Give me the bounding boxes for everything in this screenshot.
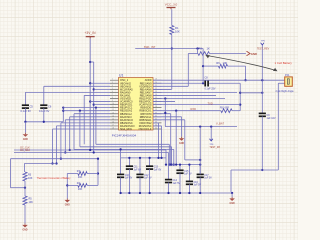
svg-text:1uF 6V: 1uF 6V bbox=[125, 178, 133, 180]
svg-text:C12: C12 bbox=[144, 175, 149, 177]
wire pin r13 to ground bbox=[153, 116, 182, 118]
svg-text:GND: GND bbox=[179, 143, 184, 145]
capacitor C14 bbox=[165, 180, 172, 183]
pin number 15 left / pin name row 14 bbox=[112, 118, 157, 122]
wire pin r11 RXD row bbox=[153, 110, 221, 112]
wire pin r14 bbox=[153, 119, 185, 121]
resistor R7 10K horizontal bbox=[78, 172, 87, 176]
wire C14 bottom stem bbox=[168, 183, 170, 194]
svg-text:1uF 6V: 1uF 6V bbox=[144, 178, 152, 180]
junction VSS row 10 bbox=[62, 107, 64, 109]
wire C12 bottom stem bbox=[139, 177, 141, 193]
pin number 10 left / pin name row 9 bbox=[112, 103, 157, 107]
svg-text:GND: GND bbox=[65, 205, 70, 207]
wire x=98 down bbox=[97, 159, 99, 186]
capacitor C16 bbox=[186, 181, 193, 184]
junction C13 rail1 top bbox=[148, 157, 150, 159]
wire C5 top stem bbox=[24, 92, 26, 105]
wire feed x=176.2 bbox=[175, 111, 177, 165]
connector PJ1 battery jack bbox=[285, 77, 293, 86]
junction C6 on rail bbox=[43, 121, 45, 123]
svg-text:16: 16 bbox=[112, 121, 114, 123]
wire pin 8 left bbox=[90, 101, 110, 103]
junction C10 rail bottom bbox=[119, 192, 121, 194]
junction divider tap bbox=[24, 187, 26, 189]
junction C17 rail bottom bbox=[199, 192, 201, 194]
wire pin r5 long bbox=[153, 91, 237, 93]
wire group1 top rail y=157.9 bbox=[121, 157, 166, 159]
wire pin 6 left bbox=[84, 94, 110, 96]
junction x165 row12 bbox=[164, 112, 166, 114]
wire up at x=188.3 bbox=[187, 54, 189, 87]
junction x165 top bbox=[164, 97, 166, 99]
wire rail down to ground bbox=[24, 122, 26, 133]
wire jog to x=93.7 bbox=[90, 61, 94, 63]
wire down x=158.5 bbox=[158, 123, 160, 158]
junction C12 rail bottom bbox=[139, 192, 141, 194]
wire pin 15 left bbox=[61, 122, 110, 124]
junction x98 top bbox=[97, 158, 99, 160]
pin number 13 left / pin name row 12 bbox=[112, 112, 157, 116]
junction rail2 x=171.6 bbox=[170, 163, 172, 165]
wire FB1 to corner bbox=[232, 110, 240, 112]
wire down at x=95.9 bbox=[95, 108, 97, 145]
wire up to TP3 bbox=[261, 45, 263, 80]
svg-text:1uF 6V: 1uF 6V bbox=[154, 170, 162, 172]
resistor R6 10K horizontal bbox=[219, 64, 228, 68]
svg-text:C16: C16 bbox=[194, 182, 199, 184]
wire pin y107.65 left bbox=[63, 107, 110, 109]
junction x93 pin9 bbox=[93, 103, 95, 105]
junction C11 rail bottom bbox=[128, 192, 130, 194]
resistor R1 10K vertical bbox=[170, 26, 174, 35]
wire C13 top stem bbox=[149, 158, 151, 166]
wire C5 bottom stem bbox=[24, 108, 26, 122]
pin number 12 left / pin name row 11 bbox=[112, 109, 157, 113]
wire loop bottom bbox=[11, 187, 26, 189]
wire C16 bottom stem bbox=[188, 184, 190, 193]
junction test point net bbox=[261, 79, 263, 81]
wire divider top bbox=[23, 164, 25, 173]
svg-text:SDA_MCU: SDA_MCU bbox=[120, 128, 132, 131]
capacitor C9 bbox=[259, 113, 266, 116]
svg-text:TEST_RX: TEST_RX bbox=[209, 146, 220, 149]
svg-text:2: 2 bbox=[112, 79, 113, 81]
wire C15 top stem bbox=[179, 165, 181, 171]
wire R1 down to pin row 89.35 bbox=[171, 35, 173, 90]
junction rail2 end feed bbox=[199, 163, 201, 165]
wire to main ground bbox=[231, 193, 233, 197]
wire pin r15 bbox=[153, 122, 159, 124]
svg-text:1uF 5V: 1uF 5V bbox=[204, 178, 212, 180]
wire vertical x=93.7 bbox=[93, 62, 95, 153]
svg-text:OSCO/CLK: OSCO/CLK bbox=[139, 128, 152, 131]
junction y150 bbox=[69, 149, 71, 151]
wire R2 to port bbox=[210, 53, 246, 55]
wire bottom right horizontal y=170 bbox=[231, 169, 278, 171]
svg-text:GND: GND bbox=[22, 230, 27, 232]
wire C17 bottom stem bbox=[199, 177, 201, 193]
wire net I2C_CLK y=150 bbox=[14, 149, 166, 151]
wire R3 to R5 bbox=[24, 181, 26, 196]
junction TXD row bbox=[239, 103, 241, 105]
svg-text:VCC_3.0: VCC_3.0 bbox=[165, 3, 178, 7]
ground divider bbox=[22, 224, 28, 232]
junction C5 on rail bbox=[24, 121, 26, 123]
junction rail1 x158 bbox=[157, 157, 159, 159]
capacitor C10 bbox=[117, 174, 124, 177]
wire pin r12 bbox=[153, 113, 171, 115]
power bar +3V_IN bbox=[86, 37, 95, 39]
wire down x=60.9 bbox=[60, 123, 62, 159]
wire feed x=166 bbox=[165, 150, 167, 165]
junction node MCLR bbox=[171, 47, 173, 49]
wire pin 9 left bbox=[94, 104, 110, 106]
wire pin y110.7 left bbox=[63, 110, 110, 112]
capacitor C11 bbox=[126, 166, 133, 169]
svg-text:5: 5 bbox=[112, 88, 113, 90]
svg-text:10: 10 bbox=[112, 103, 114, 105]
wire feed x=168.5 group2 corner bbox=[168, 153, 170, 165]
wire down x=184.8 bbox=[184, 120, 186, 160]
pin number 8 left / pin name row 7 bbox=[112, 97, 157, 101]
junction x90 pin2 bbox=[89, 82, 91, 84]
capacitor C13 bbox=[146, 166, 153, 169]
wire C6 bottom stem bbox=[43, 108, 45, 122]
wire C11 bottom stem bbox=[128, 169, 130, 193]
junction C15 rail2 top bbox=[179, 163, 181, 165]
wire down to rail x=231 bbox=[230, 170, 232, 192]
wire battery+ y=80.2 bbox=[153, 79, 285, 81]
wire C12 top stem bbox=[139, 158, 141, 175]
pin number 2 left / pin name row 1 bbox=[112, 79, 157, 83]
wire down to ground U1 bbox=[181, 117, 183, 137]
capacitor C5 bbox=[22, 105, 29, 108]
U1 pin stubs left and right bbox=[110, 80, 162, 129]
junction R2 tap bbox=[196, 47, 198, 49]
port RST red arrow bbox=[247, 51, 258, 56]
ground R4 branch bbox=[65, 199, 71, 207]
svg-text:0.1uF 6V: 0.1uF 6V bbox=[39, 109, 50, 113]
wire r3 to R2 bbox=[188, 53, 198, 55]
wire down at x=79.9 bbox=[79, 111, 81, 147]
svg-text:8: 8 bbox=[112, 97, 113, 99]
junction bend x=79.9 y=110.7 bbox=[79, 110, 81, 112]
annotation arrow 1 Cell Battery bbox=[205, 55, 277, 71]
wire right to battery net bbox=[240, 92, 262, 94]
wire pin 17 left bbox=[53, 128, 111, 130]
pin number 4 left / pin name row 3 bbox=[112, 85, 157, 89]
svg-text:1uF 5V: 1uF 5V bbox=[173, 183, 181, 185]
junction divider line x52 bbox=[51, 162, 53, 164]
wire pin y113.7 left bbox=[74, 113, 110, 115]
wire C10 top stem bbox=[120, 158, 122, 175]
wire battery- stub bbox=[278, 82, 284, 84]
junction bottom right bbox=[261, 169, 263, 171]
svg-text:PIC24FJ64GA004: PIC24FJ64GA004 bbox=[112, 134, 137, 138]
junction x90 pin8 bbox=[89, 100, 91, 102]
capacitor C15 bbox=[176, 170, 183, 173]
wire divider top line y=163.5 bbox=[24, 163, 56, 165]
capacitor C6 bbox=[40, 105, 47, 108]
junction x93 pin4 bbox=[93, 88, 95, 90]
svg-text:I2C_SDA: I2C_SDA bbox=[20, 149, 30, 152]
wire branch x=203.1 down bbox=[202, 49, 204, 84]
junction x93 end bbox=[93, 151, 95, 153]
wire down x=69.7 bbox=[69, 117, 71, 150]
wire R4 to ground branch bbox=[67, 184, 78, 186]
svg-text:11: 11 bbox=[112, 106, 114, 108]
svg-text:2 pin Right Angle: 2 pin Right Angle bbox=[276, 90, 295, 93]
wire pin 14 left bbox=[65, 119, 110, 121]
junction R6 to battery+ bbox=[244, 79, 246, 81]
wire C17 top stem bbox=[199, 165, 201, 175]
wire pin 16 left bbox=[57, 125, 111, 127]
pin number 5 left / pin name row 4 bbox=[112, 88, 157, 92]
wire pin r7 bbox=[153, 98, 225, 100]
wire bottom rail y=193 bbox=[121, 192, 233, 194]
wire to R4 bbox=[87, 184, 98, 186]
wire tap down to R2 bbox=[197, 49, 199, 54]
junction rail2 x170 bbox=[170, 163, 172, 165]
svg-text:35: 35 bbox=[155, 128, 157, 130]
svg-text:15: 15 bbox=[112, 118, 114, 120]
resistor R2 1K horizontal bbox=[198, 52, 210, 56]
op-amp U1 microcontroller body bbox=[119, 78, 154, 131]
svg-text:10K: 10K bbox=[223, 61, 228, 65]
wire feed down x=173.8 bbox=[173, 149, 175, 164]
pin number 9 left / pin name row 8 bbox=[112, 100, 157, 104]
svg-text:1K: 1K bbox=[207, 47, 210, 51]
wire under IC y=146.8 bbox=[80, 146, 172, 148]
svg-text:C15: C15 bbox=[184, 171, 189, 173]
wire down x=56.5 bbox=[56, 126, 58, 164]
svg-text:10K: 10K bbox=[29, 201, 34, 204]
test point TP3 bbox=[261, 43, 264, 45]
wire under IC y=144.3 bbox=[96, 143, 169, 145]
junction y163.5 bbox=[55, 162, 57, 164]
wire C9 down bbox=[261, 116, 263, 170]
wire down x=52.5 bbox=[52, 129, 54, 164]
svg-text:1 Cell Battery: 1 Cell Battery bbox=[275, 61, 293, 65]
junction C16 rail bottom bbox=[188, 192, 190, 194]
svg-text:17: 17 bbox=[112, 124, 114, 126]
wire R7 left bbox=[67, 173, 78, 175]
wire C15 bottom stem bbox=[179, 173, 181, 193]
svg-text:7: 7 bbox=[112, 94, 113, 96]
wire R5 to ground bbox=[24, 205, 26, 224]
wire down x=65.3 bbox=[64, 120, 66, 153]
pin number 16 left / pin name row 15 bbox=[112, 121, 157, 125]
wire C11 top stem bbox=[128, 158, 130, 166]
wire down to battery+ wire bbox=[245, 66, 247, 80]
svg-text:28: 28 bbox=[155, 106, 157, 108]
pin number 17 left / pin name row 16 bbox=[112, 124, 157, 128]
svg-text:1uF 5V: 1uF 5V bbox=[184, 174, 192, 176]
svg-text:10K: 10K bbox=[175, 30, 180, 34]
test point TP4 bbox=[210, 139, 213, 141]
svg-text:1uF 10V: 1uF 10V bbox=[267, 117, 276, 120]
wire to C8 bbox=[153, 82, 204, 84]
svg-text:TEST_REV: TEST_REV bbox=[257, 48, 270, 51]
junction rail2 x176 bbox=[175, 163, 177, 165]
wire VCC to R1 bbox=[171, 9, 173, 25]
wire under IC y=149.4 bbox=[74, 148, 174, 150]
wire down x=170.7 bbox=[170, 114, 172, 165]
wire pin RB15 bbox=[153, 85, 188, 87]
svg-text:18: 18 bbox=[112, 128, 114, 130]
junction y152.5 bbox=[64, 151, 66, 153]
pin number 14 left / pin name row 13 bbox=[112, 115, 157, 119]
svg-text:C11: C11 bbox=[134, 167, 139, 169]
wire pin 4 left bbox=[94, 88, 110, 90]
svg-text:R1: R1 bbox=[175, 26, 179, 30]
wire pin r4 to VCC chain bbox=[153, 88, 172, 90]
wire loop left vertical bbox=[10, 159, 12, 188]
svg-text:TXD: TXD bbox=[208, 101, 213, 105]
svg-text:+3V_IN: +3V_IN bbox=[84, 31, 96, 35]
pin number 6 left / pin name row 5 bbox=[112, 91, 157, 95]
junction C16 rail2 top bbox=[188, 163, 190, 165]
wire down x=161.5 bbox=[161, 126, 163, 158]
junction R6 branch bbox=[202, 65, 204, 67]
wire thermistor tap y=158.7 bbox=[11, 158, 99, 160]
junction rail2 x=169.3 bbox=[168, 163, 170, 165]
junction jog bbox=[239, 92, 241, 94]
svg-text:C17: C17 bbox=[204, 175, 209, 177]
wire C13 bottom stem bbox=[149, 169, 151, 193]
pin number 3 left / pin name row 2 bbox=[112, 82, 157, 86]
wire jog to x=200.2 bbox=[185, 159, 200, 161]
svg-text:V_BAT: V_BAT bbox=[216, 121, 224, 125]
wire feed down x=169.3 bbox=[168, 144, 170, 164]
wire C6 top stem bbox=[43, 86, 45, 105]
capacitor C12 bbox=[136, 174, 143, 177]
junction VSS row 11 bbox=[62, 110, 64, 112]
svg-text:PJ1: PJ1 bbox=[285, 73, 290, 77]
wire to R7 bbox=[87, 173, 98, 175]
ground main rail bbox=[229, 197, 235, 205]
junction C11 rail1 top bbox=[128, 157, 130, 159]
power bar VCC_3.0 bbox=[167, 8, 176, 10]
wire C6 top to pin bbox=[44, 85, 110, 87]
junction x176 bbox=[175, 110, 177, 112]
svg-text:C10: C10 bbox=[125, 175, 130, 177]
junction y158.7 bbox=[60, 158, 62, 160]
svg-text:GND: GND bbox=[230, 203, 235, 205]
junction x90 y62 bbox=[89, 61, 91, 63]
wire feed x=200.2 down bbox=[199, 127, 201, 175]
ground U1 bottom bbox=[179, 137, 185, 145]
junction R4 left bbox=[66, 184, 68, 186]
svg-text:3: 3 bbox=[112, 82, 113, 84]
wire +3V_IN vertical x=90.2 bbox=[89, 38, 91, 150]
wire cap ground rail bbox=[25, 121, 63, 123]
svg-text:0.1uF 6V: 0.1uF 6V bbox=[21, 109, 32, 113]
wire group1 left feed x=120.6 bbox=[120, 149, 122, 158]
svg-text:10K: 10K bbox=[28, 177, 33, 180]
svg-text:U1: U1 bbox=[119, 73, 123, 77]
junction rail1 x161 bbox=[160, 157, 162, 159]
junction bend x=95.9 y=107.65 bbox=[95, 107, 97, 109]
wire MCLR horizontal bbox=[135, 48, 203, 50]
wire y=126.6 bbox=[165, 126, 237, 128]
svg-text:C14: C14 bbox=[173, 180, 178, 182]
svg-text:GND: GND bbox=[23, 139, 28, 141]
svg-text:C13: C13 bbox=[154, 167, 159, 169]
svg-text:Thermistor Connection of Batte: Thermistor Connection of Battery bbox=[37, 177, 72, 180]
wire down x=84.2 bbox=[83, 95, 85, 144]
wire pin r8 stub bbox=[153, 101, 175, 103]
resistor R3 vertical bbox=[23, 172, 27, 181]
wire down at x=240.2 bbox=[239, 83, 241, 110]
wire pin r16 bbox=[153, 125, 162, 127]
wire rail up to VSS pins bbox=[62, 108, 64, 122]
svg-text:14: 14 bbox=[112, 115, 114, 117]
junction rail2 x166 bbox=[165, 163, 167, 165]
wire down at x=74.0 bbox=[73, 114, 75, 150]
wire pin r9 TXD row bbox=[153, 104, 240, 106]
svg-text:C5: C5 bbox=[30, 105, 34, 109]
junction battery net bbox=[261, 92, 263, 94]
svg-text:9: 9 bbox=[112, 100, 113, 102]
wire battery- down x=278.3 bbox=[277, 83, 279, 170]
junction x211 bbox=[210, 125, 212, 127]
svg-text:R6: R6 bbox=[216, 61, 220, 65]
ferrite bead FB1 on RXD row bbox=[221, 109, 232, 113]
wire pin 2 left bbox=[90, 82, 110, 84]
junction x98 R7 right bbox=[97, 172, 99, 174]
wire pin r4 stub bbox=[153, 88, 171, 90]
resistor R5 vertical bbox=[23, 196, 27, 205]
junction rail2 x=173.8 bbox=[173, 163, 175, 165]
junction C14 rail bottom bbox=[167, 192, 169, 194]
wire to R6 bbox=[203, 65, 218, 67]
svg-text:10K: 10K bbox=[78, 188, 83, 191]
wire R6 right bbox=[228, 65, 246, 67]
svg-text:RXD: RXD bbox=[191, 107, 197, 111]
wire down to C9 bbox=[261, 80, 263, 113]
junction rail end bbox=[231, 192, 233, 194]
wire pin 13 left bbox=[70, 116, 110, 118]
wire left branch down to ground bbox=[66, 174, 68, 199]
capacitor C17 bbox=[197, 174, 204, 177]
wire C8 right bbox=[209, 82, 240, 84]
svg-text:FB1 60R: FB1 60R bbox=[220, 107, 229, 109]
wire C10 bottom stem bbox=[120, 177, 122, 193]
resistor R4 10K horizontal bbox=[78, 184, 87, 188]
junction feed on L3 bbox=[119, 148, 121, 150]
svg-text:0.1uF 25V: 0.1uF 25V bbox=[205, 88, 216, 91]
junction C8 left branch bbox=[202, 82, 204, 84]
svg-text:R2: R2 bbox=[199, 47, 203, 51]
wire net I2C_SDA y=152.5 bbox=[14, 152, 169, 154]
pin number 18 left / pin name row 17 bbox=[112, 128, 157, 132]
junction x200 bbox=[199, 125, 201, 127]
wire pin r6 bbox=[153, 94, 216, 96]
pin number 7 left / pin name row 6 bbox=[112, 94, 157, 98]
svg-text:GND: GND bbox=[251, 52, 257, 56]
pin number 11 left / pin name row 10 bbox=[112, 106, 157, 110]
svg-text:6: 6 bbox=[112, 91, 113, 93]
junction x200 y159.9 bbox=[199, 159, 201, 161]
junction C15 rail bottom bbox=[179, 192, 181, 194]
junction C13 rail bottom bbox=[148, 192, 150, 194]
ground left caps bbox=[23, 133, 29, 141]
svg-text:12: 12 bbox=[112, 109, 114, 111]
junction power x90 end bbox=[89, 149, 91, 151]
junction C12 rail1 top bbox=[139, 157, 141, 159]
